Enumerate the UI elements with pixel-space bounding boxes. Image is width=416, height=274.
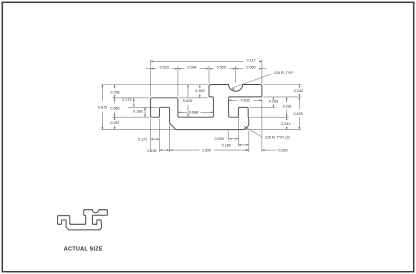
extension line block upper-left up (208, 66, 210, 83)
dimension 0.250 bottom arrows (246, 149, 249, 151)
svg-text:0.258: 0.258 (110, 91, 119, 95)
dimension 0.250 bottom line (245, 149, 249, 151)
top chain arrows at notch center (233, 68, 236, 70)
dimension 0.875 arrows (102, 85, 104, 88)
extension line inner wall down (228, 131, 230, 141)
dimension 1.500 arrows (170, 149, 173, 151)
main extrusion profile outline (151, 85, 262, 130)
svg-text:0.200: 0.200 (269, 100, 278, 104)
dimension 0.633 top line (229, 99, 237, 101)
dimension 1.500 line (170, 149, 200, 151)
dimension 0.688 arrows (178, 111, 181, 113)
svg-text:0.195: 0.195 (147, 149, 156, 153)
svg-text:0.523: 0.523 (160, 66, 169, 70)
extension line block right edge down (261, 99, 263, 153)
svg-text:0.257: 0.257 (110, 121, 119, 125)
leader .125 R TYP arrow (231, 88, 234, 90)
svg-text:0.625: 0.625 (183, 99, 192, 103)
extension line notch center up (235, 66, 237, 83)
svg-text:0.242: 0.242 (294, 89, 303, 93)
left chain dim line (114, 85, 116, 89)
right inner chain arrows (286, 97, 288, 100)
svg-text:0.875: 0.875 (98, 105, 107, 109)
dimension 0.875 line (101, 85, 103, 102)
extension line arm top to left (112, 97, 149, 99)
dimension 0.203 line (229, 138, 239, 140)
svg-text:0.172: 0.172 (138, 137, 147, 141)
extension line lip left down (150, 118, 152, 152)
dimension 2.117 right arrow (259, 61, 262, 63)
svg-text:0.633: 0.633 (241, 99, 250, 103)
svg-text:0.250: 0.250 (195, 89, 204, 93)
dimension 0.195 line (160, 149, 170, 151)
dimension 0.625 line (187, 85, 189, 98)
dimension 0.200 line (272, 97, 274, 99)
svg-text:.125 R, TYP.: .125 R, TYP. (273, 71, 294, 75)
extension line bar right end down (248, 131, 250, 152)
extension line block top to left (101, 84, 208, 86)
extension line arm right edge up (177, 66, 179, 97)
extension line arm top-left up (150, 59, 152, 96)
svg-text:0.242: 0.242 (281, 122, 290, 126)
extension line slot ceiling to left (128, 106, 159, 108)
svg-text:0.500: 0.500 (217, 66, 226, 70)
svg-text:0.688: 0.688 (189, 110, 198, 114)
leader .125 R TYP 2 line (245, 127, 263, 138)
svg-text:0.180: 0.180 (222, 143, 231, 147)
extension line arm top to right (179, 97, 207, 99)
dimension 0.180 arrows (238, 144, 241, 146)
extension line bottom edge to right (244, 129, 302, 131)
top chain arrow at left end (151, 68, 154, 70)
dimension 0.172 bottom arrows (151, 138, 154, 140)
extension line upright left down (237, 118, 239, 146)
actual-size extrusion profile outline (58, 210, 108, 230)
leader .125 R TYP line (232, 74, 271, 88)
extension line web left down (169, 124, 171, 152)
right inner chain line (286, 97, 288, 103)
dimension 0.188 vertical line (144, 107, 146, 117)
extension line block bottom to right (263, 96, 301, 98)
left chain arrows (114, 85, 116, 88)
svg-text:0.391: 0.391 (283, 105, 292, 109)
extension line block top to right (263, 84, 301, 86)
dimension 0.203 arrows (229, 138, 232, 140)
svg-text:0.250: 0.250 (278, 149, 287, 153)
dimension 0.180 line (238, 144, 248, 146)
svg-text:0.172: 0.172 (122, 98, 131, 102)
dimension 0.633 top arrows (229, 100, 232, 102)
svg-text:0.203: 0.203 (215, 137, 224, 141)
extension line lip right down (159, 118, 161, 152)
svg-text:ACTUAL SIZE: ACTUAL SIZE (64, 247, 103, 253)
right outer chain line (298, 85, 300, 87)
dimension 0.250 channel line (199, 85, 201, 89)
dimension 0.172 left vertical line (133, 98, 135, 108)
extension line shelf to left (112, 116, 149, 118)
svg-text:0.188: 0.188 (133, 109, 142, 113)
extension line profile right edge up (261, 59, 263, 83)
top chain arrow at right end (259, 68, 262, 70)
dimension 2.117 left arrow (151, 61, 154, 63)
svg-text:0.594: 0.594 (187, 66, 196, 70)
extension line upright top to right (250, 106, 276, 108)
svg-text:.125 R, TYP. (2): .125 R, TYP. (2) (264, 136, 290, 140)
top chain arrows at block left (206, 68, 209, 70)
dimension 0.172 bottom line (151, 138, 160, 140)
leader .125 R TYP 2 arrow (244, 126, 247, 128)
dimension 0.250 channel arrows (199, 85, 201, 88)
dimension 0.172 left arrows (133, 98, 135, 101)
dimension 0.200 arrows (273, 97, 275, 100)
svg-text:0.360: 0.360 (110, 106, 119, 110)
svg-text:2.117: 2.117 (247, 59, 256, 63)
dimension 0.688 line (178, 111, 187, 113)
dimension 0.188 arrows (144, 107, 146, 110)
top chain arrows at arm right edge (175, 68, 178, 70)
dimension 2.117 line left part (151, 60, 243, 62)
dimension 2.117 line right part (260, 60, 262, 62)
top chain dim line (146, 68, 156, 70)
dimension 0.195 arrows (160, 149, 163, 151)
dimension 0.625 arrows (187, 85, 189, 88)
svg-text:0.500: 0.500 (246, 66, 255, 70)
right outer chain arrows (298, 85, 300, 88)
extension line bottom edge to left (101, 129, 176, 131)
svg-text:0.633: 0.633 (293, 112, 302, 116)
svg-text:1.500: 1.500 (202, 148, 211, 152)
extension line bar shoulder to right (250, 116, 289, 118)
